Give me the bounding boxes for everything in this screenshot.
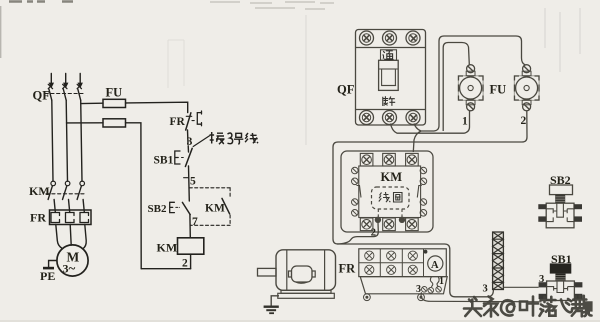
motor body xyxy=(276,250,336,290)
wire node2 xyxy=(190,254,192,269)
contactor right aux blade xyxy=(417,186,422,198)
relay lower trapezoid body xyxy=(360,277,447,294)
motor ground wire xyxy=(271,296,279,306)
contactor coil dashed box 线圈 xyxy=(372,187,410,209)
wire FR bottom to SB1 xyxy=(421,292,541,302)
svg-text:KM: KM xyxy=(29,184,50,198)
3 xyxy=(228,133,233,144)
wire node5 xyxy=(188,166,191,201)
svg-text:SB2: SB2 xyxy=(550,173,571,187)
号 xyxy=(234,133,243,144)
button SB1 shaft xyxy=(555,274,565,281)
breaker bottom screw 1 xyxy=(360,111,374,125)
relay foot right xyxy=(418,294,425,301)
wire node7 xyxy=(189,215,191,238)
wire coil2 branch xyxy=(337,223,378,245)
button SB2 terminals left xyxy=(538,204,546,222)
button SB2 terminals right xyxy=(574,204,582,222)
watermark 头条 @叶落飞舞吧 xyxy=(464,296,592,317)
motor rear section line xyxy=(324,250,326,290)
wire fuse2 bottom long loop to coil 2 and strip xyxy=(333,111,527,297)
breaker handle xyxy=(379,60,399,90)
terminal strip xyxy=(493,232,504,290)
svg-text:2: 2 xyxy=(371,228,376,239)
svg-text:7: 7 xyxy=(192,216,198,228)
svg-text:QF: QF xyxy=(337,83,355,97)
svg-text:3: 3 xyxy=(416,284,421,295)
relay contact squiggle wires xyxy=(430,277,439,287)
wire phase3 to FU1 xyxy=(81,102,103,104)
button SB2 body xyxy=(546,203,574,228)
wire phase2 mid xyxy=(69,200,70,213)
ground symbol xyxy=(264,307,279,314)
svg-text:FR: FR xyxy=(170,116,186,128)
wire FU1 to control xyxy=(126,102,188,112)
faint bottom edge xyxy=(0,320,600,322)
button SB1 body xyxy=(547,281,575,301)
coil terminal screw A2 xyxy=(399,217,404,222)
contactor top terminal 3 xyxy=(406,153,419,166)
wire phase3 upper xyxy=(81,100,82,181)
KM aux contact blade xyxy=(222,198,230,213)
breaker top screw 3 xyxy=(406,31,420,45)
wire loop to fuse1 top xyxy=(443,43,469,132)
relay contact terminal screws xyxy=(422,287,442,294)
coil dashed leads xyxy=(378,209,402,218)
button SB1 inner contacts xyxy=(547,281,575,293)
contactor right screws xyxy=(420,167,427,216)
wire node3 xyxy=(188,130,189,152)
PE wire xyxy=(49,261,57,267)
relay screw r2c1 xyxy=(365,265,374,274)
svg-text:A: A xyxy=(431,260,439,271)
contactor top terminal 1 xyxy=(360,153,373,166)
svg-text:PE: PE xyxy=(40,269,55,283)
contactor left aux blade xyxy=(357,186,362,198)
fuse FU2 xyxy=(103,119,126,127)
QF pole 2 x-mark and blade xyxy=(63,84,67,100)
wire FU2 to left return xyxy=(126,123,142,269)
faint scan marks top left xyxy=(9,0,73,3)
fuse RT2 bottom terminal xyxy=(522,100,531,111)
contactor KM body xyxy=(341,151,433,232)
button SB2 shaft xyxy=(555,195,565,204)
fuse RT1 top terminal xyxy=(466,65,475,76)
relay grid lines xyxy=(359,249,424,277)
svg-text:SB2: SB2 xyxy=(148,203,167,215)
wire phase2 to motor xyxy=(70,225,71,246)
relay screw r2c3 xyxy=(408,265,417,274)
breaker 通 char box xyxy=(381,50,397,61)
button SB1 terminals left xyxy=(539,282,547,299)
FR heater box xyxy=(50,210,92,225)
落 xyxy=(540,297,556,316)
头 xyxy=(464,297,482,316)
supply arrow L3 xyxy=(78,74,82,88)
wire strip to SB1 xyxy=(503,286,538,288)
contactor left screws xyxy=(352,167,359,216)
叶 xyxy=(520,297,538,316)
breaker QF body xyxy=(356,30,426,126)
FR heater element 3 xyxy=(80,213,89,223)
svg-text:KM: KM xyxy=(381,170,403,184)
dashed branch top xyxy=(189,187,230,189)
svg-text:3~: 3~ xyxy=(63,261,76,276)
leader line to note xyxy=(193,136,209,147)
relay screw r1c2 xyxy=(387,251,396,260)
svg-text:FU: FU xyxy=(490,83,507,97)
fuse RT2 body xyxy=(514,76,539,101)
relay FR block frame xyxy=(359,249,447,277)
control FR NC contact xyxy=(186,111,202,130)
contactor bottom terminal 2 xyxy=(383,218,396,231)
note 接3号线 (hand strokes) xyxy=(210,132,259,144)
contactor bottom terminal 1 xyxy=(360,218,373,231)
PE ground bar xyxy=(43,267,54,270)
svg-text:3: 3 xyxy=(539,274,544,285)
contactor bottom terminal 3 xyxy=(406,218,419,231)
label 线圈 coil chars xyxy=(379,192,402,202)
relay screw r2c2 xyxy=(387,265,396,274)
node5 tick xyxy=(184,177,189,179)
supply arrow L1 xyxy=(49,74,53,88)
QF linkage dashed xyxy=(45,93,85,95)
button SB2 inner contacts xyxy=(546,203,574,221)
svg-text:QF: QF xyxy=(33,89,51,103)
control SB2 button xyxy=(170,202,191,214)
wire phase3 to motor xyxy=(83,225,87,249)
relay foot left xyxy=(364,294,371,301)
svg-text:KM: KM xyxy=(205,203,225,215)
wire QF right screw to fuse2 top loop xyxy=(414,36,525,131)
wire phase1 mid xyxy=(54,200,55,213)
svg-text:2: 2 xyxy=(521,115,527,127)
KM main contact 2 xyxy=(63,181,70,199)
KM main linkage dashed xyxy=(46,193,85,195)
motor M circle xyxy=(57,245,88,276)
control SB1 button xyxy=(175,148,192,166)
contactor top terminal 2 xyxy=(383,153,396,166)
supply arrow L2 xyxy=(64,74,68,88)
wire phase1 to motor xyxy=(56,225,63,249)
FR heater element 1 xyxy=(51,213,60,223)
wire phase1 upper xyxy=(52,100,53,181)
飞 xyxy=(561,299,572,312)
线 xyxy=(245,133,258,143)
wire bottom return xyxy=(141,268,190,270)
svg-text:SB1: SB1 xyxy=(154,155,174,167)
fuse FU1 xyxy=(103,99,126,107)
wire phase2 to FU2 xyxy=(67,122,104,124)
svg-text:KM: KM xyxy=(157,241,178,255)
wire phase3 mid xyxy=(83,200,84,213)
char 通 xyxy=(383,51,394,60)
breaker bottom screw 2 xyxy=(383,111,397,125)
FR heater element 2 xyxy=(66,213,75,223)
fuse RT1 bottom terminal xyxy=(466,100,475,111)
motor front ring line xyxy=(286,250,288,290)
relay screw r1c1 xyxy=(365,251,374,260)
motor base xyxy=(281,290,331,293)
relay screw r1c3 xyxy=(408,251,417,260)
breaker bottom screw 3 xyxy=(406,111,420,125)
motor terminal box xyxy=(289,266,316,283)
svg-text:3: 3 xyxy=(483,284,488,295)
coil terminal screw A1 xyxy=(375,217,380,222)
svg-text:FR: FR xyxy=(339,262,357,276)
breaker bottom divider xyxy=(356,109,426,111)
breaker top screw 2 xyxy=(383,31,397,45)
motor base plate xyxy=(278,293,335,298)
条 xyxy=(484,297,498,317)
char 断 xyxy=(383,96,395,106)
wire QF mid screw to fuse1 bottom xyxy=(391,111,470,134)
QF pole 3 x-mark and blade xyxy=(77,84,81,100)
svg-text:FR: FR xyxy=(30,211,46,225)
svg-text:SB1: SB1 xyxy=(551,252,572,266)
舞 xyxy=(572,296,587,317)
fuse RT1 body xyxy=(458,76,483,101)
button SB1 terminals right xyxy=(574,282,582,299)
@ xyxy=(501,300,515,315)
svg-text:1: 1 xyxy=(462,116,468,128)
relay indicator dot xyxy=(424,250,428,254)
吧 xyxy=(586,303,591,316)
relay ammeter A xyxy=(428,256,443,271)
KM coil xyxy=(178,238,204,254)
fuse RT2 top terminal xyxy=(522,65,531,76)
dashed branch bottom xyxy=(190,224,230,226)
svg-text:1: 1 xyxy=(439,276,444,287)
dashed branch right upper xyxy=(229,188,231,198)
dashed branch right lower xyxy=(229,215,231,225)
svg-text:5: 5 xyxy=(190,176,196,188)
breaker top screw 1 xyxy=(360,31,374,45)
svg-text:2: 2 xyxy=(182,258,188,270)
faint scan edge left xyxy=(0,6,1,58)
KM main contact 1 xyxy=(48,181,55,199)
KM main contact 3 xyxy=(77,181,84,199)
button SB1 cap xyxy=(550,263,572,273)
breaker top divider xyxy=(356,47,426,49)
接 xyxy=(210,132,225,144)
QF pole 1 x-mark and blade xyxy=(48,84,52,100)
contactor inner frame xyxy=(359,166,421,218)
svg-text:FU: FU xyxy=(106,86,123,100)
motor shaft xyxy=(258,268,277,276)
wire junction to contactor top right xyxy=(413,131,421,152)
button SB2 cap xyxy=(550,185,573,195)
wire phase2 upper xyxy=(66,100,67,181)
svg-text:3: 3 xyxy=(187,136,193,148)
